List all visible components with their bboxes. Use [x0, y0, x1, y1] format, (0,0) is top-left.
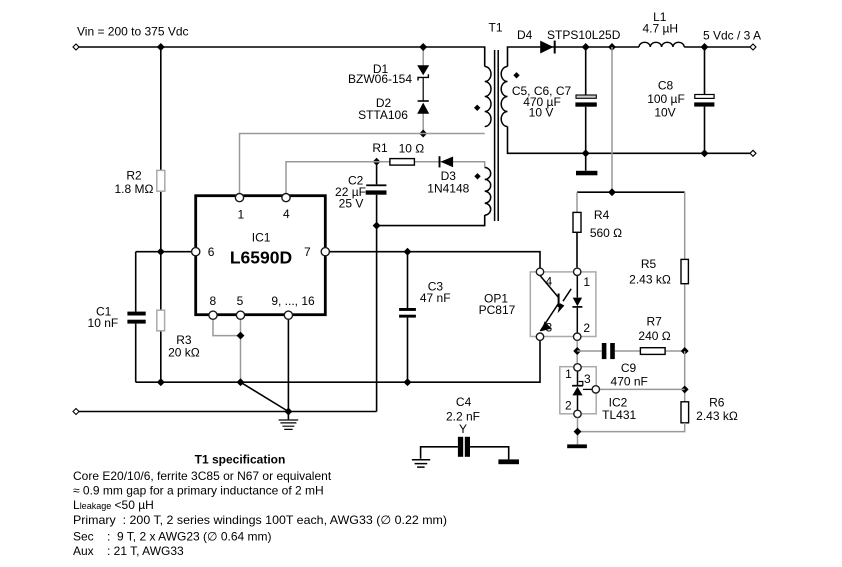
T1 secondary winding [501, 67, 507, 127]
wire feedback vertical (gray) [611, 47, 613, 192]
label C9 [611, 361, 648, 388]
svg-text:D4: D4 [517, 28, 533, 42]
wire TL431 pin2 down (gray) [577, 418, 579, 445]
capacitor C9 [602, 343, 615, 359]
junction feedback / divider [608, 188, 616, 196]
diode D2 [417, 101, 429, 114]
wire pin 6 horizontal [136, 251, 192, 253]
wire signal-ground horizontal [136, 341, 540, 382]
wire secondary top rail [508, 47, 640, 67]
junction pin5 / ground wire [237, 378, 245, 386]
output terminal + [750, 44, 756, 50]
wire R2 branch vertical [160, 47, 162, 382]
svg-text:10 nF: 10 nF [88, 316, 119, 330]
svg-text:4: 4 [546, 274, 553, 288]
svg-text:2.43 kΩ: 2.43 kΩ [696, 409, 738, 423]
OP1 phototransistor [540, 276, 559, 332]
svg-text:Sec : 9 T, 2 x AWG23 (∅ 0.: Sec : 9 T, 2 x AWG23 (∅ 0.64 mm) [73, 530, 272, 544]
label D1 [348, 62, 412, 86]
svg-text:9, ..., 16: 9, ..., 16 [271, 294, 315, 308]
svg-text:Y: Y [459, 422, 467, 436]
svg-text:≈ 0.9 mm gap for a primary ind: ≈ 0.9 mm gap for a primary inductance of… [73, 484, 324, 498]
svg-text:PC817: PC817 [479, 303, 516, 317]
label output [703, 28, 761, 42]
svg-text:25 V: 25 V [339, 196, 364, 210]
svg-text:1: 1 [565, 367, 572, 381]
wire C9 R7 net (gray) [577, 350, 685, 352]
label R4 [590, 208, 622, 240]
svg-text:STTA106: STTA106 [358, 108, 408, 122]
node Vin label [77, 25, 189, 39]
resistor R1 [390, 159, 415, 166]
wire aux winding bottom [377, 215, 485, 226]
OP1 pin 3 [536, 320, 552, 340]
svg-text:R5: R5 [641, 257, 657, 271]
wire D1-D2 chain [422, 47, 424, 134]
T1 aux dot [474, 173, 480, 179]
transformer T1 core [495, 50, 499, 221]
label C8 [647, 78, 685, 119]
junction main ground [284, 408, 292, 416]
svg-text:R2: R2 [126, 169, 142, 183]
junction R3 / ground wire [157, 378, 165, 386]
junction C8 top [701, 43, 709, 51]
svg-text:T1 specification: T1 specification [195, 453, 286, 467]
TL431 symbol [572, 371, 592, 411]
IC1 pin 1 [235, 194, 244, 222]
wire pin 8 to pin 5 [213, 319, 241, 336]
diode D4 [540, 41, 556, 54]
junction feedback tap [608, 43, 616, 51]
capacitor C3 [399, 308, 416, 318]
svg-text:L6590D: L6590D [230, 247, 292, 267]
capacitor C4 [458, 437, 470, 457]
OP1 pin 4 [536, 268, 552, 288]
svg-text:R6: R6 [709, 396, 725, 410]
resistor R6 [681, 402, 689, 423]
label D3 [427, 169, 469, 195]
IC1 pin 6 [192, 245, 215, 259]
label R3 [168, 333, 200, 360]
IC1 pins 9-16 [271, 294, 315, 319]
input terminal + [73, 44, 79, 50]
junction TL431 ref / divider mid [681, 385, 689, 393]
junction D2 / primary return [419, 130, 427, 138]
svg-text:R4: R4 [594, 208, 610, 222]
label T1 [488, 21, 502, 35]
junction R7 / R5 bottom [681, 347, 689, 355]
svg-text:BZW06-154: BZW06-154 [348, 72, 412, 86]
svg-text:47 nF: 47 nF [420, 291, 451, 305]
label D4 [517, 28, 621, 42]
wire diagonal to main ground [241, 382, 289, 411]
svg-text:4: 4 [283, 207, 290, 221]
ground primary main [279, 412, 299, 430]
wire pin 5 vertical [240, 319, 242, 382]
diode D1 (transil) [417, 65, 429, 80]
inductor L1 [639, 42, 684, 47]
IC1 box [196, 196, 326, 315]
junction C2 top / pin4 net [373, 158, 381, 166]
label R1 [372, 141, 424, 155]
TL431 pin 3 [584, 372, 599, 393]
junction C3 top [404, 248, 412, 256]
svg-text:TL431: TL431 [602, 408, 636, 422]
svg-text:1: 1 [238, 207, 245, 221]
ground secondary at C5 [576, 171, 597, 176]
junction C2 bottom / aux return [373, 222, 381, 230]
label R2 [115, 169, 154, 197]
wire output rail after L1 [684, 46, 750, 48]
svg-text:5 Vdc / 3 A: 5 Vdc / 3 A [703, 28, 761, 42]
svg-text:3: 3 [546, 320, 553, 334]
svg-text:5: 5 [237, 294, 244, 308]
diode D3 [440, 156, 454, 167]
note primary line [73, 513, 447, 527]
junction pin8/pin5 [237, 332, 245, 340]
wire bottom input rail [79, 411, 377, 413]
optocoupler OP1 box [530, 272, 596, 337]
wire R5-R6 vertical (gray) [684, 351, 686, 402]
wire C5 branch [585, 47, 587, 171]
svg-text:STPS10L25D: STPS10L25D [547, 28, 621, 42]
note sec line [73, 530, 272, 544]
wire TL431 ref (gray) [600, 388, 685, 390]
label IC1 [230, 230, 292, 267]
svg-text:Core E20/10/6, ferrite 3C85 or: Core E20/10/6, ferrite 3C85 or N67 or eq… [73, 469, 332, 483]
resistor R3 [157, 310, 165, 331]
resistor R5 [681, 259, 688, 283]
svg-text:6: 6 [208, 245, 215, 259]
svg-text:R7: R7 [647, 314, 663, 328]
svg-text:1: 1 [583, 275, 590, 289]
note core line [73, 469, 332, 483]
label R6 [696, 396, 738, 424]
note T1 specification [195, 453, 286, 467]
label OP1 [479, 292, 516, 318]
capacitor C5-C7 [575, 95, 596, 107]
output terminal - [750, 150, 756, 156]
T1 secondary dot [513, 72, 519, 78]
TL431 box IC2 [560, 367, 596, 414]
junction R6 loop / TL431 cathode return [574, 428, 582, 436]
wire divider top loop [577, 191, 685, 193]
IC1 pin 8 [209, 294, 217, 319]
capacitor C1 [127, 312, 145, 324]
svg-text:1N4148: 1N4148 [427, 182, 469, 196]
OP1 pin 2 [574, 321, 591, 341]
wire secondary bottom rail [508, 127, 751, 154]
svg-text:Primary : 200 T, 2 series win: Primary : 200 T, 2 series windings 100T … [73, 513, 447, 527]
wire C4 right [470, 447, 509, 460]
ground primary at C4 [412, 460, 430, 467]
wire R5 stubs (gray) [684, 192, 686, 351]
wire C1 branch [135, 252, 137, 383]
label C3 [420, 279, 451, 305]
svg-text:3: 3 [584, 372, 591, 386]
svg-text:2: 2 [565, 398, 572, 412]
wire R6 bottom loop (gray) [578, 423, 685, 432]
T1 primary winding [485, 67, 491, 127]
svg-text:IC1: IC1 [252, 230, 271, 244]
capacitor C2 [366, 184, 387, 194]
junction C8 bottom rail [701, 149, 709, 157]
svg-text:T1: T1 [488, 21, 502, 35]
wire OP1 pin2 to TL431 (gray) [576, 341, 578, 364]
wire C2 vertical [376, 162, 378, 226]
OP1 LED [572, 276, 582, 334]
ground secondary at IC2 [567, 444, 587, 448]
wire C2-bottom to ground rail vertical [376, 226, 378, 412]
svg-text:100 µF: 100 µF [647, 92, 685, 106]
wire R4 stubs [576, 192, 578, 267]
svg-text:1.8 MΩ: 1.8 MΩ [115, 182, 154, 196]
svg-text:2: 2 [583, 321, 590, 335]
junction C5 top [582, 43, 590, 51]
svg-text:C8: C8 [658, 78, 674, 92]
svg-text:7: 7 [304, 245, 311, 259]
svg-text:10 V: 10 V [529, 106, 554, 120]
wire pin 1 net (gray) [240, 134, 485, 194]
svg-text:4.7 µH: 4.7 µH [642, 22, 678, 36]
svg-text:8: 8 [210, 294, 217, 308]
TL431 pin 1 [565, 364, 581, 381]
svg-text:240 Ω: 240 Ω [638, 329, 670, 343]
IC1 pin 5 [236, 294, 244, 319]
svg-text:2.43 kΩ: 2.43 kΩ [629, 273, 671, 287]
svg-text:Vin = 200 to 375 Vdc: Vin = 200 to 375 Vdc [77, 25, 189, 39]
resistor R7 [640, 348, 665, 355]
wire pins 9-16 vertical [287, 319, 289, 412]
svg-text:10 Ω: 10 Ω [399, 142, 425, 156]
junction R2 / pin6 wire [157, 248, 165, 256]
junction C5 bottom rail [582, 149, 590, 157]
svg-text:Lleakage <50 µH: Lleakage <50 µH [73, 498, 154, 512]
TL431 pin 2 [565, 398, 581, 417]
IC1 pin 4 [282, 194, 290, 221]
label IC2 [602, 396, 636, 423]
T1 primary dot [474, 105, 480, 111]
svg-text:R1: R1 [372, 141, 388, 155]
label C5 C6 C7 [512, 84, 572, 120]
svg-text:560 Ω: 560 Ω [590, 226, 622, 240]
resistor R2 [157, 170, 165, 191]
label D2 [358, 96, 408, 122]
label R7 [638, 314, 670, 343]
svg-text:C9: C9 [621, 361, 637, 375]
wire C8 branch [704, 47, 706, 153]
resistor R4 [573, 212, 581, 232]
junction C3 bottom [404, 378, 412, 386]
label R5 [629, 257, 671, 287]
OP1 pin 1 [574, 268, 591, 289]
svg-text:20 kΩ: 20 kΩ [168, 345, 200, 359]
ground secondary at C4 [498, 459, 519, 464]
wire top input rail [79, 47, 485, 67]
IC1 pin 7 [304, 245, 329, 259]
wire C4 left [421, 447, 458, 459]
note leakage line [73, 498, 154, 512]
capacitor C8 [694, 95, 714, 107]
svg-text:2.2 nF: 2.2 nF [446, 409, 480, 423]
input terminal - [73, 409, 79, 415]
svg-text:Aux : 21 T, AWG33: Aux : 21 T, AWG33 [73, 544, 184, 558]
note gap line [73, 484, 324, 498]
label C1 [88, 304, 119, 330]
svg-text:10V: 10V [654, 105, 675, 119]
wire pin 7 to OP1 pin4 [330, 252, 541, 268]
svg-text:470 nF: 470 nF [611, 374, 648, 388]
note aux line [73, 544, 184, 558]
T1 aux winding [485, 168, 491, 216]
OP1 light arrow [558, 289, 572, 313]
wire C3 branch [407, 252, 409, 383]
svg-text:C4: C4 [456, 395, 472, 409]
label L1 [642, 10, 678, 36]
wire pin 4 net (gray) [286, 162, 485, 194]
junction top rail / R2 [157, 43, 165, 51]
junction top rail / D1 [419, 43, 427, 51]
junction OP1 pin2 / C9 net [573, 347, 581, 355]
label C4 [446, 395, 480, 436]
label C2 [335, 174, 366, 211]
